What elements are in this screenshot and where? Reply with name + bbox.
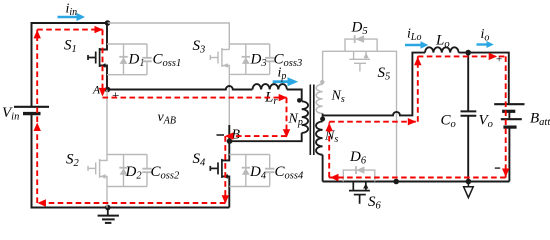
node primary polarity dot — [297, 98, 302, 103]
svg-text:Coss1: Coss1 — [153, 52, 182, 69]
transformer primary winding Np — [302, 101, 308, 133]
capacitor Coss2 (gray) — [142, 155, 151, 187]
wire secondary center tap joint — [322, 114, 324, 122]
svg-text:A: A — [92, 85, 101, 97]
diode D2 (gray) — [119, 155, 127, 187]
ground (primary side) — [98, 208, 119, 223]
svg-text:io: io — [481, 27, 490, 44]
node ground junction — [105, 205, 111, 211]
red arrowheads primary loop — [34, 26, 291, 207]
transistor Q S1 (MOSFET, conducting, black) — [88, 23, 107, 90]
svg-text:iLo: iLo — [407, 27, 421, 44]
diode D3 (gray) — [242, 44, 250, 74]
wire primary winding to node B — [230, 133, 302, 141]
node S5 leg to rail junction — [393, 179, 399, 185]
wire top rail (active, Vin+ to S1 drain) — [32, 23, 108, 107]
svg-text:Lo: Lo — [435, 33, 450, 51]
diode D5 (gray) branch — [345, 35, 377, 51]
capacitor Co — [461, 53, 477, 182]
source Vin battery — [14, 107, 49, 114]
wire top rail (inactive, to S3 drain) — [108, 23, 230, 50]
svg-text:Coss4: Coss4 — [275, 164, 304, 182]
svg-text:Vo: Vo — [479, 113, 493, 131]
label minus at battery bottom — [495, 167, 500, 169]
svg-text:vAB: vAB — [158, 110, 176, 127]
wire Lr to primary winding — [287, 90, 302, 102]
transistor Q S2 (MOSFET, off, gray) — [88, 90, 107, 208]
svg-text:iin: iin — [66, 2, 78, 19]
svg-text:Batt: Batt — [530, 111, 550, 129]
wire snubber box leg1 — [107, 44, 147, 75]
wire S3 source to node B (active end) — [228, 125, 230, 141]
svg-text:S5: S5 — [378, 65, 391, 83]
transistor Q S6 (sync rect, conducting, black) — [349, 182, 370, 204]
wire center tap to output riser (with hop over S5 leg) — [323, 53, 425, 116]
svg-text:D6: D6 — [349, 149, 367, 167]
svg-text:+: + — [112, 88, 119, 103]
wire secondary bottom lead to rail — [322, 155, 324, 182]
svg-text:Np: Np — [288, 112, 303, 129]
svg-text:S1: S1 — [64, 37, 77, 55]
wire node A to Lr (with hop over S3/S4 leg) — [108, 86, 253, 89]
wire secondary top lead (gray, to S5/D5) — [323, 51, 397, 181]
svg-text:D5: D5 — [351, 20, 368, 38]
node secondary polarity dot (black) — [320, 117, 325, 122]
ground (output side, open arrow) — [464, 182, 474, 198]
current arrow i_o (blue) — [477, 41, 494, 48]
svg-text:D2: D2 — [125, 164, 143, 182]
capacitor Coss3 (gray) — [265, 44, 274, 74]
transformer secondary winding Ns (bottom, black) — [316, 122, 323, 155]
svg-text:Co: Co — [441, 113, 456, 131]
current arrow i_p (blue) — [273, 77, 299, 86]
current arrow i_in (blue) — [58, 13, 86, 21]
red arrowheads secondary loop — [326, 53, 510, 182]
capacitor Coss4 (gray) — [265, 155, 274, 187]
svg-text:Ns: Ns — [331, 89, 345, 106]
node Co to rail junction — [466, 179, 472, 185]
battery Batt — [494, 104, 524, 127]
svg-text:S4: S4 — [193, 151, 207, 169]
transistor Q S3 (MOSFET, off, gray) — [210, 48, 229, 125]
wire secondary bottom rail — [323, 181, 510, 183]
inductor Lr — [253, 84, 287, 89]
svg-text:+: + — [496, 53, 502, 65]
wire battery bottom to rail — [508, 127, 510, 181]
svg-text:D3: D3 — [250, 52, 267, 69]
diode D4 (gray) — [242, 155, 250, 187]
diode D1 (body diode, gray) — [119, 44, 127, 75]
svg-text:D1: D1 — [128, 52, 145, 69]
wire snubber box leg3 — [229, 44, 269, 74]
current arrow i_Lo (blue) — [405, 41, 428, 48]
wire snubber box leg4 — [229, 155, 269, 187]
node output junction — [465, 50, 471, 56]
svg-text:S3: S3 — [193, 38, 206, 56]
label minus vAB at B — [217, 134, 225, 136]
wire red current path primary loop (dashed) — [37, 30, 286, 203]
svg-text:S2: S2 — [66, 152, 80, 170]
transistor Q S5 (sync rect, off, gray) — [349, 51, 370, 71]
wire Lo to output node and battery top — [459, 53, 509, 105]
node top rail junction — [105, 20, 111, 26]
wire left rail (Vin- down to bottom rail) — [32, 114, 230, 208]
diode D6 (gray) branch — [343, 166, 375, 181]
inductor Lo — [425, 47, 459, 52]
svg-text:Coss2: Coss2 — [151, 164, 180, 182]
svg-text:S6: S6 — [368, 194, 382, 212]
node B — [227, 138, 233, 144]
svg-text:D4: D4 — [249, 164, 267, 182]
node secondary top polarity dot (gray) — [320, 80, 324, 84]
transformer core — [310, 85, 314, 156]
capacitor Coss1 (gray) — [142, 44, 151, 75]
node A — [105, 87, 111, 93]
wire snubber box leg2 — [107, 155, 147, 187]
transistor Q S4 (MOSFET, conducting, black) — [210, 141, 229, 207]
wire red current path secondary loop (dashed) — [329, 56, 506, 177]
transformer secondary winding Ns (top, gray) — [316, 84, 322, 113]
